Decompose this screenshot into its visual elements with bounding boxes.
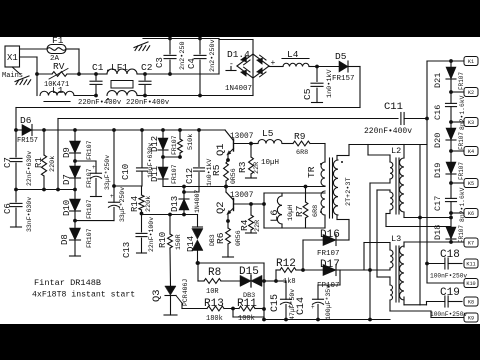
- wire doubler mid: [75, 220, 114, 222]
- svg-text:TR: TR: [306, 166, 317, 178]
- wire mid rail left: [16, 189, 75, 191]
- wire rail Y2: [58, 118, 398, 120]
- resistor R2 510k: [179, 130, 181, 139]
- svg-text:22R: 22R: [253, 162, 261, 174]
- svg-text:Q2: Q2: [215, 201, 227, 214]
- wire LF1 to C2: [137, 73, 145, 75]
- svg-text:+: +: [311, 304, 315, 311]
- svg-text:X1: X1: [7, 53, 18, 63]
- svg-text:R6: R6: [215, 232, 226, 244]
- wire L2 inner leads: [370, 182, 390, 184]
- svg-text:RV: RV: [53, 61, 65, 72]
- terminal K8: [464, 297, 478, 306]
- svg-text:10µH: 10µH: [261, 159, 279, 167]
- svg-text:C5: C5: [302, 88, 313, 100]
- svg-text:FR107: FR107: [86, 228, 93, 248]
- svg-text:FR107: FR107: [86, 140, 93, 160]
- svg-text:FR107: FR107: [458, 162, 465, 180]
- wire X1 pin1 to fuse: [20, 48, 48, 50]
- svg-text:1k8: 1k8: [283, 278, 296, 286]
- svg-text:33nF•630v: 33nF•630v: [26, 197, 33, 232]
- wire VBUS rail Y1: [16, 107, 360, 109]
- bridge diode lower-left: [240, 67, 250, 77]
- svg-text:D5: D5: [335, 51, 347, 62]
- svg-text:R8: R8: [208, 267, 221, 279]
- svg-text:220nF•400v: 220nF•400v: [364, 127, 412, 136]
- wire TR secondary bottom: [336, 215, 338, 220]
- wire L6 loop bottom: [264, 227, 325, 229]
- fuse F1: [47, 45, 66, 54]
- svg-text:4xF18T8 instant start: 4xF18T8 instant start: [32, 290, 135, 300]
- wire L3 right bottom to C19: [403, 297, 405, 305]
- svg-text:100µF*35v: 100µF*35v: [325, 285, 332, 320]
- svg-text:33µF*250v: 33µF*250v: [119, 187, 126, 222]
- svg-text:0R56: 0R56: [230, 168, 237, 184]
- wire L3 left bottom to K9: [389, 300, 391, 311]
- terminal K7: [451, 241, 464, 243]
- wire RV line: [37, 73, 52, 75]
- svg-text:22R: 22R: [254, 220, 262, 232]
- wire C12 bottom: [184, 191, 199, 193]
- svg-text:C2: C2: [141, 62, 153, 73]
- svg-text:1n0•1kV: 1n0•1kV: [326, 69, 334, 98]
- wire fuse to node: [66, 48, 79, 50]
- svg-text:D15: D15: [239, 266, 259, 278]
- svg-text:Q1: Q1: [215, 143, 227, 156]
- wire K9 feed: [431, 317, 463, 319]
- svg-text:1N4007: 1N4007: [194, 189, 201, 213]
- wire L3 right top to K7 net: [403, 242, 405, 247]
- svg-text:PCR406J: PCR406J: [182, 279, 189, 306]
- svg-text:180k: 180k: [206, 315, 223, 323]
- wire D6 cathode rail: [16, 129, 22, 131]
- wire L3 leads: [364, 242, 390, 244]
- svg-text:22nF•100v: 22nF•100v: [148, 217, 155, 252]
- svg-text:C4: C4: [187, 58, 197, 69]
- wire Q2 collector to L6 loop: [251, 203, 264, 205]
- wire L2 left bottom to D18: [389, 210, 391, 214]
- svg-text:220nF•400v: 220nF•400v: [78, 99, 122, 107]
- svg-text:L1: L1: [52, 85, 64, 96]
- terminal K1: [464, 57, 478, 66]
- svg-text:K5: K5: [468, 181, 474, 187]
- svg-text:C12: C12: [185, 168, 195, 184]
- svg-text:220k: 220k: [145, 196, 153, 212]
- wire D5 to bus: [348, 66, 360, 68]
- ground under X1: [12, 67, 20, 74]
- wire C1 to LF1: [96, 73, 107, 75]
- svg-text:FR157: FR157: [17, 137, 38, 145]
- terminal K11: [464, 259, 478, 268]
- svg-text:D20: D20: [433, 133, 443, 148]
- svg-text:C13: C13: [122, 242, 132, 258]
- wire D12 cathode row: [163, 156, 180, 158]
- terminal K4: [451, 150, 464, 152]
- svg-text:K4: K4: [468, 149, 474, 155]
- connector X1: [5, 46, 20, 67]
- svg-text:510k: 510k: [187, 134, 195, 150]
- terminal K9: [464, 313, 478, 322]
- wire right bus vertical K1-C11-C18-K10: [426, 61, 428, 283]
- svg-text:K8: K8: [468, 300, 474, 306]
- svg-text:220k: 220k: [49, 156, 57, 172]
- wire X1 pin2 down: [20, 56, 38, 58]
- svg-text:C1: C1: [92, 62, 104, 73]
- svg-text:C6: C6: [3, 203, 13, 214]
- svg-text:Q3: Q3: [151, 289, 163, 302]
- svg-text:K9: K9: [468, 316, 474, 322]
- wire R9 to TR: [310, 143, 325, 145]
- svg-text:22nF•630v: 22nF•630v: [26, 151, 33, 186]
- svg-text:D19: D19: [433, 163, 443, 178]
- svg-text:6R8: 6R8: [296, 149, 308, 157]
- svg-text:K6: K6: [468, 211, 474, 217]
- wire L1 to C1: [74, 95, 96, 97]
- wire L2 left top lead: [367, 145, 369, 156]
- wire K1 feed: [427, 60, 464, 62]
- svg-text:C16: C16: [433, 105, 443, 120]
- bridge AC vertical: [252, 40, 254, 96]
- svg-text:D13: D13: [170, 196, 180, 212]
- svg-text:K7: K7: [468, 241, 474, 247]
- svg-text:10R: 10R: [206, 288, 219, 296]
- svg-text:FR107: FR107: [317, 250, 340, 258]
- wire L line to bridge: [145, 73, 219, 75]
- wire L6 loop top: [264, 192, 325, 194]
- wire L3 vertical to rail: [369, 270, 371, 320]
- bridge diode upper-left: [240, 55, 250, 65]
- svg-text:R5: R5: [211, 164, 222, 176]
- terminal K2: [451, 91, 464, 93]
- wire mid rail right: [163, 186, 325, 188]
- terminal K5: [451, 182, 464, 184]
- svg-text:8n2•1.6kV: 8n2•1.6kV: [459, 95, 466, 130]
- svg-text:2n2•250: 2n2•250: [179, 41, 187, 70]
- svg-text:R10: R10: [158, 232, 168, 248]
- wire C7 column top: [15, 108, 17, 131]
- bridge diode upper-right: [256, 55, 266, 65]
- svg-text:33µF*250v: 33µF*250v: [104, 155, 111, 190]
- wire D16 to D17 link: [302, 240, 304, 270]
- svg-text:D10: D10: [62, 200, 72, 216]
- svg-text:100nF•250v: 100nF•250v: [430, 273, 467, 280]
- wire TR secondary top: [336, 156, 338, 161]
- svg-text:Fintar DR148B: Fintar DR148B: [34, 278, 101, 288]
- svg-text:+: +: [92, 164, 96, 171]
- svg-text:0R56: 0R56: [235, 230, 242, 246]
- svg-text:C11: C11: [384, 101, 403, 113]
- svg-text:220nF•400v: 220nF•400v: [126, 99, 170, 107]
- svg-text:L3: L3: [391, 234, 401, 244]
- svg-text:D21: D21: [433, 73, 443, 88]
- wire bridge to L4: [269, 66, 283, 68]
- svg-text:FR107: FR107: [171, 164, 178, 184]
- Q2 emitter arrow: [228, 208, 234, 214]
- svg-text:K10: K10: [466, 281, 475, 287]
- wire N line to bridge: [145, 95, 253, 97]
- svg-text:L2: L2: [391, 146, 401, 156]
- svg-text:K2: K2: [468, 90, 474, 96]
- wire top earth rail: [143, 38, 219, 40]
- wire lower rail: [142, 214, 198, 216]
- svg-text:6R8: 6R8: [312, 205, 320, 217]
- wire L2 inner verticals: [369, 183, 371, 270]
- svg-text:L5: L5: [262, 128, 274, 139]
- wire TR primary2 bottom lead: [324, 215, 326, 228]
- svg-text:R9: R9: [294, 131, 306, 142]
- wire HV drive rail: [349, 144, 427, 146]
- svg-text:D8: D8: [60, 234, 70, 245]
- Q1 emitter arrow: [228, 149, 234, 155]
- bridge diode lower-right: [256, 67, 266, 77]
- svg-text:2n2•250v: 2n2•250v: [209, 39, 217, 72]
- svg-text:K1: K1: [468, 59, 474, 65]
- svg-text:C14: C14: [296, 297, 307, 315]
- svg-text:2T+2•3T: 2T+2•3T: [345, 177, 353, 206]
- wire L2 right bottom to K6 net: [403, 212, 405, 218]
- svg-text:47µF*50v: 47µF*50v: [289, 289, 296, 320]
- svg-text:R3: R3: [237, 161, 248, 173]
- top letterbox bar: [0, 0, 480, 37]
- svg-text:C10: C10: [121, 164, 131, 180]
- svg-text:D18: D18: [433, 225, 443, 240]
- bottom letterbox bar: [0, 324, 480, 360]
- svg-text:150R: 150R: [175, 234, 182, 250]
- capacitor C9 33uF 250v: [113, 130, 115, 186]
- svg-text:+: +: [110, 193, 114, 200]
- wire bottom rail: [264, 319, 390, 321]
- ground at top rail: [134, 42, 148, 48]
- wire R13 node stub: [232, 309, 234, 318]
- terminal K3: [451, 121, 464, 123]
- svg-text:FR107: FR107: [86, 168, 93, 188]
- svg-text:C18: C18: [440, 249, 460, 261]
- svg-text:C19: C19: [440, 287, 460, 299]
- svg-text:100k: 100k: [238, 315, 255, 323]
- wire C9 node to R14: [114, 185, 142, 187]
- terminal K6: [451, 212, 464, 214]
- svg-text:FR157: FR157: [332, 75, 355, 83]
- svg-text:D7: D7: [62, 174, 72, 185]
- svg-text:FR107: FR107: [171, 135, 178, 155]
- svg-text:C17: C17: [433, 196, 443, 211]
- svg-text:K11: K11: [466, 262, 475, 268]
- svg-text:1N4007: 1N4007: [225, 85, 252, 93]
- capacitor C8 33uF 250v: [75, 160, 96, 162]
- svg-text:FR107: FR107: [86, 199, 93, 219]
- wire right bus vertical HV: [419, 145, 421, 305]
- wire R11 column down: [263, 281, 265, 320]
- terminal K10: [427, 282, 463, 284]
- svg-text:R12: R12: [276, 258, 296, 270]
- svg-text:C15: C15: [270, 294, 281, 312]
- wire gate row: [198, 262, 265, 264]
- svg-text:K3: K3: [468, 120, 474, 126]
- svg-text:FR107: FR107: [458, 72, 465, 90]
